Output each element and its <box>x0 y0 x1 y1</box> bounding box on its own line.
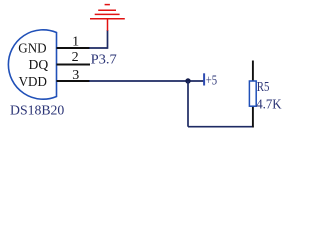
junction dot <box>185 78 190 83</box>
sensor U1 DS18B20 body <box>8 30 56 99</box>
svg-text:R5: R5 <box>257 79 270 94</box>
wire pin1 riser <box>107 30 109 49</box>
resistor R5 top pin <box>252 61 254 82</box>
power symbol VCC stem (red) <box>107 18 109 31</box>
wire junction down <box>187 81 189 127</box>
pin 2 stub <box>57 64 91 66</box>
svg-text:DQ: DQ <box>29 58 49 73</box>
svg-text:2: 2 <box>72 50 79 65</box>
svg-text:GND: GND <box>18 42 46 57</box>
svg-text:P3.7: P3.7 <box>91 51 117 66</box>
power symbol bar 1 (widest) <box>90 18 125 20</box>
wire bottom horizontal <box>188 126 254 128</box>
svg-text:DS18B20: DS18B20 <box>10 104 64 119</box>
power symbol bar 4 (top dash) <box>105 4 110 6</box>
power port +5 bar <box>203 73 205 85</box>
power symbol bar 2 <box>95 13 120 15</box>
power symbol bar 3 <box>98 9 116 11</box>
svg-text:1: 1 <box>72 34 79 49</box>
svg-text:VDD: VDD <box>19 75 47 90</box>
resistor R5 bottom pin <box>252 106 254 128</box>
svg-text:+5: +5 <box>206 73 217 88</box>
svg-text:4.7K: 4.7K <box>256 96 281 111</box>
pin 3 stub <box>57 80 91 82</box>
svg-text:3: 3 <box>72 68 79 83</box>
resistor R5 body <box>249 81 256 106</box>
wire pin1 horizontal <box>89 47 108 49</box>
wire pin3 to junction <box>89 80 205 82</box>
pin 1 stub <box>57 47 91 49</box>
